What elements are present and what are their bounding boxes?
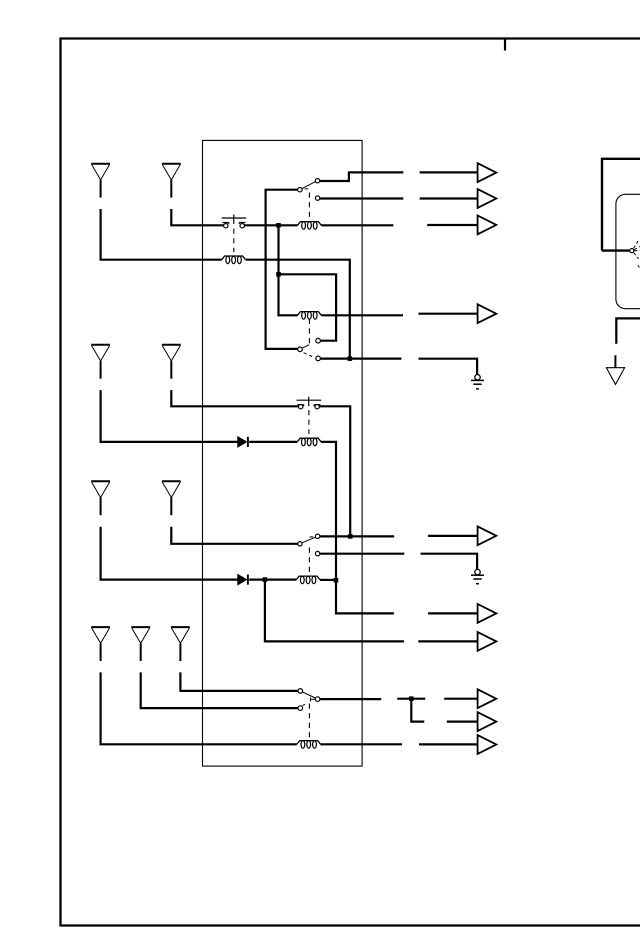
antenna ANT8: [131, 627, 150, 661]
antenna ANT6: [162, 481, 181, 515]
ground G1: [471, 375, 484, 389]
wire output 8: [444, 698, 477, 700]
relay RL6 pin b tick: [303, 704, 305, 705]
relay RL6 pin a: [298, 689, 303, 694]
wire D1 to L4: [249, 441, 297, 443]
wire RL5 throw1 out: [320, 535, 394, 537]
junction node C: [348, 356, 353, 361]
relay RL3 throw pin 1: [316, 338, 321, 343]
arrow output 5: [478, 526, 497, 545]
relay RL5 coil L5: [296, 576, 320, 584]
wire tee drop: [411, 699, 424, 722]
relay RL6 linkage: [308, 704, 310, 738]
relay RL4 contact: [297, 397, 322, 409]
diode D1: [238, 437, 248, 447]
relay RL5 lever: [302, 537, 315, 543]
wire RL6 common out: [320, 698, 381, 700]
relay RL3 throw pin 2: [316, 356, 321, 361]
antenna ANT2: [162, 164, 181, 198]
wire output 10: [419, 743, 477, 745]
wire L1 to node C: [246, 260, 350, 359]
wire RL2 common: [266, 190, 298, 349]
wire RL3 throw2 out: [320, 358, 401, 360]
diode D2: [238, 575, 248, 585]
wire L5 out: [320, 579, 336, 581]
arrow output 9: [478, 712, 497, 731]
antenna ANT5: [91, 481, 110, 515]
arrow output 3: [478, 216, 497, 235]
wire RL1 to L2: [245, 224, 298, 226]
arrow output 4: [478, 304, 497, 323]
ground G2: [471, 569, 484, 583]
wire node E down: [265, 580, 404, 642]
wire node B down: [279, 274, 298, 315]
relay RL6 pivot tick: [310, 697, 315, 701]
wire output 7: [418, 640, 477, 642]
arrow output 10: [478, 735, 497, 754]
border tick mark: [504, 39, 506, 51]
wire ANT7 lead: [101, 672, 297, 744]
wire control unit ground lead: [616, 318, 640, 343]
relay RL1 coil L1: [222, 256, 246, 264]
junction node A: [276, 223, 281, 228]
wire RL2 throw2 out: [320, 197, 404, 199]
wire node F down: [336, 580, 394, 613]
antenna ANT7: [91, 627, 110, 661]
junction node F: [334, 578, 339, 583]
relay RL6 coil L6: [297, 741, 321, 749]
relay RL5 throw pin 1: [315, 534, 319, 538]
relay RL2 linkage: [308, 193, 310, 222]
antenna ANT3: [91, 345, 110, 379]
relay RL3 linkage: [308, 319, 310, 346]
tuner block outline: [616, 194, 640, 308]
control unit box: [602, 159, 640, 251]
arrow output 6: [478, 604, 497, 623]
wire L3 out: [321, 314, 403, 316]
rotary switch SW1 pin: [630, 249, 634, 253]
relay RL4 linkage: [308, 410, 310, 434]
wire D2 to L5: [249, 578, 296, 580]
junction node D: [348, 534, 353, 539]
wire ANT5 lead: [101, 527, 238, 580]
relay RL4 coil L4: [297, 438, 321, 446]
relay RL2 lever: [302, 182, 316, 189]
relay RL2 throw pin 1: [315, 179, 319, 183]
wire ANT1 lead: [101, 209, 222, 260]
relay RL5 throw pin 2: [315, 551, 319, 555]
relay RL3 lever: [302, 345, 309, 348]
wire ANT6 lead: [171, 527, 297, 544]
relay RL1 contact: [222, 215, 247, 228]
wire node B right: [279, 274, 337, 340]
wire output 4: [419, 313, 478, 315]
ground stem: [614, 355, 616, 367]
wire ANT9 lead: [180, 672, 298, 691]
rotary switch SW1 positions: [634, 239, 640, 267]
wire L4 out: [321, 442, 336, 580]
wire ANT3 lead: [101, 390, 238, 442]
wire tee bar: [397, 698, 425, 700]
wire L6 out: [321, 743, 402, 745]
wire output 3: [427, 224, 477, 226]
wire RL4 contact out: [319, 406, 350, 536]
wire ANT8 lead: [141, 672, 298, 708]
relay RL6 lever: [303, 692, 316, 698]
relay RL2 coil L2: [298, 222, 322, 230]
relay RL3 lever linkage: [304, 353, 315, 358]
wire node A branch: [277, 225, 279, 274]
antenna ANT1: [91, 164, 110, 198]
relay RL5 linkage: [308, 548, 310, 574]
wire RL2 throw1 out: [320, 172, 404, 181]
junction node B: [276, 272, 281, 277]
relay unit box: [203, 140, 363, 766]
relay RL6 pin b: [298, 706, 303, 711]
relay RL3 common pin: [298, 347, 303, 352]
junction node G: [409, 696, 414, 701]
wire output 2: [420, 197, 478, 199]
wire RL5 throw2 out: [320, 553, 405, 555]
antenna ANT4: [162, 345, 181, 379]
relay RL2 throw pin 2: [315, 196, 319, 200]
relay RL1 linkage: [233, 229, 235, 253]
wire output 9: [447, 720, 478, 722]
relay RL2 common pin: [298, 188, 302, 192]
chassis ground G3: [606, 368, 624, 385]
wire to ground G1: [419, 359, 478, 375]
relay RL3 coil L3: [298, 312, 322, 320]
wire ANT4 lead: [171, 390, 298, 406]
wire L2 out: [321, 224, 393, 226]
junction node E: [263, 577, 268, 582]
arrow output 8: [478, 689, 497, 708]
wire to ground G2: [421, 554, 478, 570]
relay RL5 common pin: [298, 542, 302, 546]
relay RL6 common pin: [315, 697, 320, 702]
arrow output 7: [478, 632, 497, 651]
wire output 5: [428, 535, 477, 537]
arrow output 2: [478, 189, 497, 208]
antenna ANT9: [171, 627, 190, 661]
wire output 1: [420, 171, 478, 173]
wire output 6: [428, 612, 477, 614]
wire ANT2 lead: [171, 209, 223, 225]
arrow output 1: [478, 163, 497, 182]
